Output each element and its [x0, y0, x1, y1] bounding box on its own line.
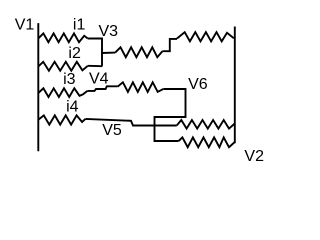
svg-text:V3: V3 — [99, 23, 119, 40]
resistor V4 to V6 — [118, 82, 164, 92]
svg-text:i2: i2 — [68, 45, 81, 62]
svg-text:V4: V4 — [89, 70, 109, 87]
resistor i1 — [38, 33, 88, 42]
svg-text:i4: i4 — [66, 98, 79, 115]
wire: node V3 stub — [102, 52, 115, 54]
resistor V6 branch to V2 — [179, 137, 235, 147]
wire: i1 to node V3 — [88, 39, 102, 67]
svg-text:i3: i3 — [63, 71, 76, 88]
svg-text:V2: V2 — [244, 148, 264, 165]
wire: V6 branch down-left-down — [155, 89, 186, 141]
resistor top right to V2 — [177, 32, 234, 41]
wire: top branch corner — [162, 39, 177, 51]
wire: left rail node V1 — [37, 23, 39, 151]
resistor V3 branch — [115, 47, 162, 57]
wire: i4 to V5 — [85, 119, 176, 126]
svg-text:V6: V6 — [188, 76, 208, 93]
wire: i2 to node V3 — [88, 65, 102, 67]
resistor i3 — [38, 88, 87, 97]
wire: right rail node V2 — [234, 27, 236, 144]
resistor V5 branch to V2 — [177, 120, 235, 129]
svg-text:i1: i1 — [73, 16, 86, 33]
svg-text:V5: V5 — [102, 122, 122, 139]
resistor i4 — [38, 115, 85, 124]
wire: i3 to node V4 — [87, 86, 117, 91]
resistor i2 — [38, 62, 88, 71]
svg-text:V1: V1 — [15, 17, 35, 34]
